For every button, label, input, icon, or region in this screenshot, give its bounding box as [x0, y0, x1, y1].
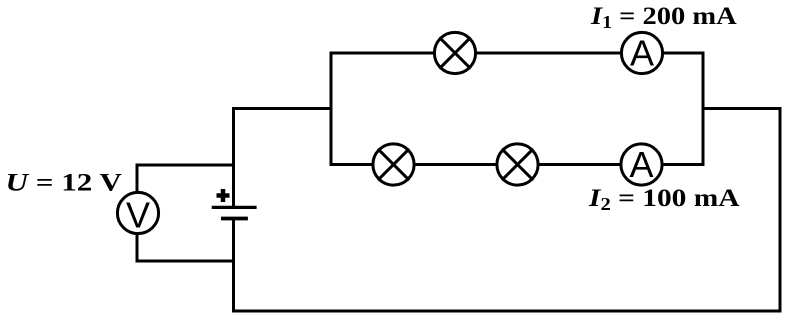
svg-text:I2 = 100 mA: I2 = 100 mA — [588, 184, 740, 215]
wire: right edge vertical (780,108.5)-(780,311) — [779, 109, 782, 312]
svg-text:A: A — [629, 144, 653, 185]
svg-text:A: A — [630, 33, 654, 74]
wire: bottom branch right segment — [663, 163, 704, 166]
wire: voltmeter top lead (137,192)-(137,165)-(233,165) — [137, 165, 233, 192]
ammeter A1 circle (top branch) — [621, 32, 662, 73]
wire: middle right horizontal junction to right edge — [703, 107, 780, 110]
wire: battery top vertical (233,108.5)-(233,206) — [232, 109, 235, 207]
wire: voltmeter bottom lead (137,234)-(137,261)-(233,261) — [137, 234, 233, 261]
wire: battery bottom vertical (233,219)-(233,311) — [232, 219, 235, 311]
lamp E1 (top branch) — [434, 32, 475, 73]
wire: bottom branch segment lamp to ammeter — [539, 163, 621, 166]
wire: right junction vertical (703,53)-(703,164.5) — [702, 53, 705, 165]
wire: left junction vertical (331,53)-(331,164.5) — [330, 53, 333, 165]
ammeter A2 circle (bottom branch) — [621, 144, 662, 185]
lamp E3 (bottom branch right) — [497, 144, 538, 185]
battery B1 long plate (positive) — [213, 206, 255, 209]
battery B1 short plate (negative) — [223, 217, 246, 221]
wire: top branch middle segment — [476, 52, 621, 55]
voltmeter V circle — [117, 192, 158, 233]
svg-text:U = 12 V: U = 12 V — [6, 169, 123, 196]
lamp E2 (bottom branch left) — [373, 144, 414, 185]
wire: top branch left segment — [331, 52, 434, 55]
svg-text:V: V — [126, 195, 150, 236]
wire: top branch right segment — [663, 52, 703, 55]
wire: middle horizontal battery to left junction — [234, 107, 332, 110]
svg-text:I1 = 200 mA: I1 = 200 mA — [590, 1, 737, 32]
battery plus sign — [217, 189, 230, 202]
wire: bottom branch segment between lamps — [415, 163, 497, 166]
wire: bottom return (233,311)-(780,311) — [234, 310, 781, 313]
wire: bottom branch left segment — [331, 163, 373, 166]
